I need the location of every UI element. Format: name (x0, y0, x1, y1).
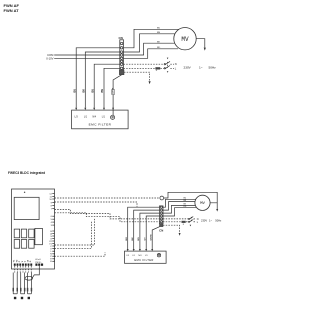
dashed stubs below left terminals (15, 266, 32, 273)
dashed N line from CN pin5 (124, 63, 165, 65)
svg-text:GNYE: GNYE (113, 87, 115, 94)
switch earth mark (190, 225, 192, 227)
wire filter2 to CN pin3 (134, 210, 160, 250)
switch blade L (164, 68, 165, 69)
arrowheads into lower filter (127, 249, 129, 251)
motor MV (lower) (195, 195, 210, 210)
switch blade N (164, 63, 165, 64)
svg-text:RD: RD (157, 47, 161, 49)
wire CN pin3 to motor (163, 205, 196, 213)
dashed PE line from CN pin7 to earth (124, 72, 150, 81)
svg-text:EMC FILTER: EMC FILTER (89, 123, 112, 127)
wire CN pin2 to motor (124, 34, 182, 52)
svg-text:L/3: L/3 (126, 255, 129, 257)
motor earth wire (196, 39, 205, 48)
ground terminal in filter (111, 115, 115, 119)
wire CN pin1 to motor (124, 29, 182, 48)
svg-text:230V: 230V (184, 65, 192, 69)
svg-text:4Out1: 4Out1 (35, 258, 41, 261)
wire CN pin1 to motor (163, 199, 196, 207)
svg-text:N: N (175, 62, 177, 66)
svg-text:1~: 1~ (199, 65, 203, 69)
dashed row to CN pin1 (55, 202, 138, 207)
dashed stub to remote (55, 252, 106, 256)
wire filter1 to CN pin2 (128, 207, 160, 250)
svg-text:GY: GY (145, 237, 147, 241)
motor MV (upper) (174, 28, 196, 50)
ground terminal in lower filter (157, 254, 160, 257)
wire CN pin4 to motor (124, 49, 179, 59)
dashed PE to earth arrow (lower) (163, 225, 180, 233)
svg-text:BN: BN (138, 237, 140, 241)
wire label GNYE (112, 90, 115, 95)
cable pair 2 (21, 273, 25, 294)
wire CN pin2 to motor (163, 202, 196, 211)
switch tie (166, 62, 168, 68)
top circle terminal (160, 196, 164, 200)
button 5 (21, 240, 26, 249)
svg-text:EMC FILTER: EMC FILTER (134, 258, 153, 262)
svg-text:50Hz: 50Hz (215, 219, 222, 223)
dashed mains L riser (55, 222, 92, 249)
button 1 (14, 229, 19, 238)
wire filter4 to CN pin5 (146, 216, 159, 250)
wire CN pin3 to motor (124, 43, 179, 55)
svg-text:BN: BN (157, 32, 160, 34)
bottom terminals left (7 squares) (14, 264, 32, 266)
EMC filter box (upper) (72, 110, 129, 129)
fuse F (lower) (182, 221, 186, 223)
shield clamp oval (25, 276, 33, 280)
wire filter L to CN pin1 (76, 48, 120, 108)
bottom terminals right (3 squares) (35, 264, 43, 266)
svg-text:CN: CN (119, 36, 123, 40)
wire GNYE CN PE to filter ground (152, 227, 160, 250)
wire filter to CN pin6 (104, 68, 120, 108)
switch terminal marks (167, 58, 169, 60)
arrowheads into filter (75, 108, 77, 110)
wire top circle to motor PE (164, 192, 218, 203)
button big (35, 228, 43, 244)
svg-text:L/1: L/1 (145, 255, 148, 257)
board right edge terminal rows group1 (49, 194, 54, 228)
cable pair 1 (13, 273, 17, 294)
button 2 (21, 229, 26, 238)
svg-text:MV: MV (181, 36, 189, 43)
bottom terminal labels (left group) (14, 259, 33, 262)
wire 0-10V to CN pin4 (54, 57, 120, 59)
svg-text:L/1: L/1 (132, 255, 135, 257)
board right edge terminal rows group2 (49, 231, 54, 263)
board right edge terminal rows column2 (54, 246, 56, 263)
svg-text:BU: BU (91, 89, 94, 93)
svg-text:0-10V: 0-10V (46, 56, 53, 60)
EMC filter box (lower) (125, 251, 167, 263)
svg-text:FWN AT: FWN AT (4, 8, 20, 13)
motor earth wire to arrow (210, 203, 217, 209)
svg-text:MV: MV (200, 202, 205, 206)
CN PE pin dark (lower) (160, 224, 164, 227)
dashed line board to top circle (55, 197, 160, 199)
switch blade N (lower) (188, 218, 189, 219)
button 4 (14, 240, 19, 249)
button 6 (29, 240, 34, 249)
switch tie (lower) (190, 217, 192, 222)
wire CN pin4 to motor (163, 208, 196, 216)
wire GNYE from CN PE to filter (113, 75, 122, 116)
svg-text:BU: BU (73, 89, 76, 93)
dashed mains N riser (55, 219, 95, 245)
clamp earth wire to PE terminal (33, 266, 40, 278)
wire COM to CN pin3 (54, 54, 120, 56)
dashed L line from CN pin7 (163, 221, 181, 223)
switch blade L (lower) (188, 221, 189, 222)
svg-text:BU: BU (157, 28, 160, 30)
svg-text:BN: BN (101, 89, 104, 93)
svg-text:230V: 230V (201, 219, 207, 223)
cable pair 3 (28, 273, 32, 294)
wire filter to CN pin5 (94, 64, 120, 108)
dashed stair to CN pin7 (55, 213, 160, 222)
svg-text:GNYE: GNYE (150, 234, 152, 241)
fuse F (155, 67, 160, 69)
svg-text:50Hz: 50Hz (209, 65, 217, 69)
svg-text:BK: BK (132, 237, 134, 241)
CN pin circles (120, 42, 122, 44)
svg-text:FWEC3 BLDC integrated: FWEC3 BLDC integrated (8, 171, 45, 175)
controller board FWEC3 (12, 189, 55, 269)
wire filter N to CN pin2 (85, 52, 120, 108)
CN PE pin (dark) (119, 70, 124, 75)
button 3 (29, 229, 34, 238)
svg-text:N/4: N/4 (138, 255, 141, 257)
svg-text:CN: CN (159, 228, 163, 232)
svg-text:BU: BU (126, 237, 128, 241)
svg-text:O: O (50, 248, 52, 250)
svg-text:1~: 1~ (209, 219, 212, 223)
dashed N line from CN pin6 (163, 218, 188, 220)
wire filter3 to CN pin4 (140, 213, 160, 250)
dashed stair to CN pin6 (55, 210, 160, 219)
connector CN (lower) (160, 206, 164, 224)
dashed L line from CN pin6 (124, 67, 156, 69)
svg-text:BK: BK (83, 89, 86, 93)
display (14, 197, 39, 219)
board logo dot (24, 192, 25, 193)
